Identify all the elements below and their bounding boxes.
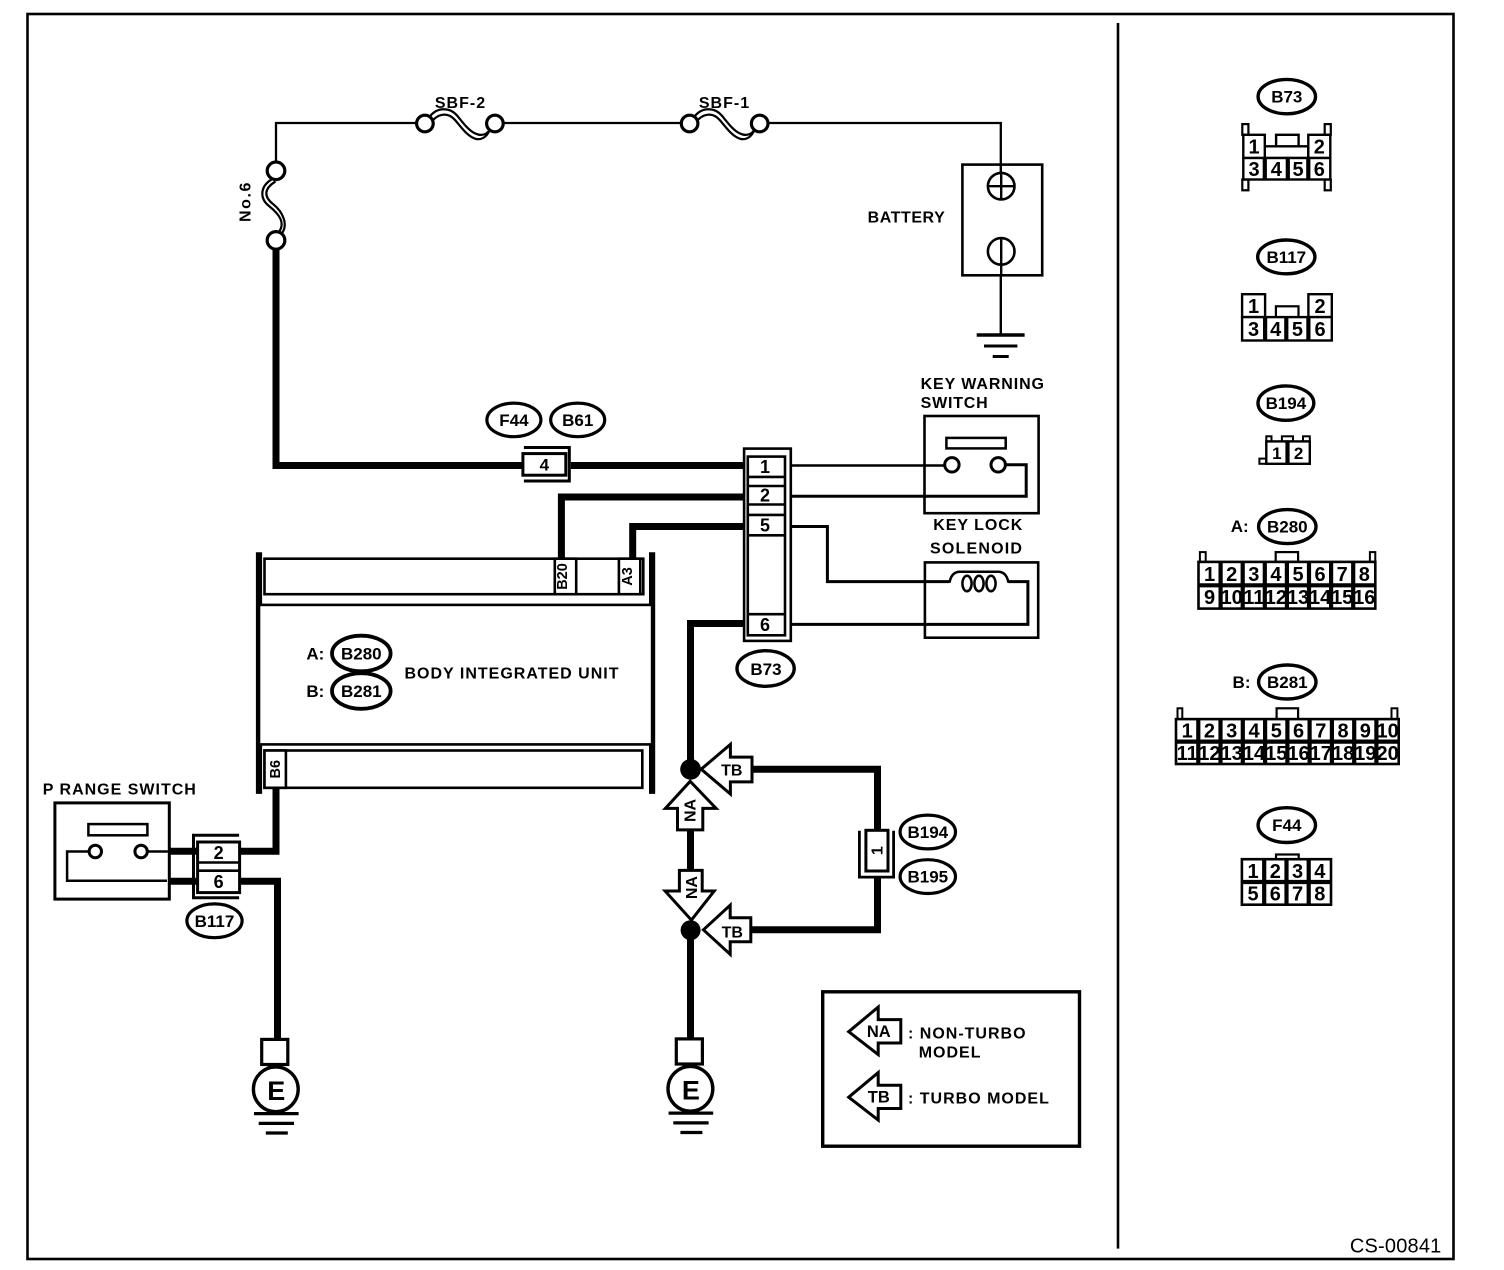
svg-text:A3: A3 [620,567,636,586]
svg-text:6: 6 [1270,884,1281,906]
svg-text:NA: NA [867,1023,891,1041]
svg-text:4: 4 [1270,319,1282,341]
wire B73 pin 5 to key lock solenoid [791,527,950,582]
wire P range switch to B117 pin 2 (thick) [169,848,198,855]
connector label F44 [487,403,541,437]
svg-text:6: 6 [214,872,224,892]
wire B73 pin 6 to junction (thick) [691,624,747,761]
svg-text:No.6: No.6 [238,181,255,222]
svg-text:5: 5 [1271,721,1282,743]
wire between NA arrows (thick) [687,830,694,871]
svg-text:1: 1 [760,457,770,477]
svg-text:4: 4 [1314,861,1326,883]
svg-text:F44: F44 [499,411,529,430]
ground E right [668,1039,713,1133]
svg-text:12: 12 [1198,743,1220,765]
svg-text:5: 5 [760,516,770,536]
svg-text:B195: B195 [907,868,948,887]
svg-text:1: 1 [1248,137,1259,159]
svg-text:BODY INTEGRATED UNIT: BODY INTEGRATED UNIT [405,666,620,683]
svg-text:6: 6 [1314,159,1325,181]
fuse SBF-2 [417,95,504,139]
svg-text:MODEL: MODEL [919,1044,982,1061]
panel connector B281 [1176,665,1399,765]
battery [868,165,1043,276]
svg-text:NA: NA [683,799,700,823]
svg-text:B280: B280 [1267,518,1308,537]
svg-text:E: E [682,1076,700,1106]
svg-text:7: 7 [1315,721,1326,743]
svg-text:3: 3 [1248,564,1259,586]
svg-text:1: 1 [1182,721,1193,743]
wire P range switch to B117 pin 6 (thick) [169,878,198,885]
svg-text:14: 14 [1309,587,1332,609]
svg-text:20: 20 [1376,743,1398,765]
svg-text:: TURBO MODEL: : TURBO MODEL [908,1091,1050,1108]
svg-text:1: 1 [1204,564,1215,586]
svg-text:16: 16 [1353,587,1375,609]
connector B73 block [744,449,791,641]
junction node 2 [681,920,701,940]
svg-text:15: 15 [1265,743,1287,765]
connector label B73 [737,651,794,687]
wire B20 to B73 pin 2 (thick) [561,497,748,560]
connector label B117 [187,904,242,938]
svg-text:B281: B281 [1267,673,1308,692]
svg-text:14: 14 [1243,743,1266,765]
svg-text:5: 5 [1292,564,1303,586]
connector label B280 [332,636,391,672]
svg-text:B117: B117 [195,912,235,931]
svg-text:NA: NA [684,876,701,900]
svg-text:8: 8 [1314,884,1325,906]
connector label B194 [900,815,955,849]
arrow TB (junction 1) [701,744,752,794]
connector B6 cell [265,751,286,788]
svg-text:A:: A: [306,644,324,663]
fuse No.6 [238,162,285,249]
wire battery to ground [1000,275,1002,334]
svg-text:B280: B280 [341,645,382,664]
svg-text:KEY LOCK: KEY LOCK [933,517,1023,534]
svg-text:17: 17 [1310,743,1332,765]
svg-text:TB: TB [721,762,742,779]
svg-text:6: 6 [1293,721,1304,743]
ground battery [977,335,1025,357]
svg-text:13: 13 [1287,587,1309,609]
svg-text:13: 13 [1221,743,1243,765]
svg-text:4: 4 [1270,564,1282,586]
connector label B61 [551,403,605,437]
svg-text:7: 7 [1292,884,1303,906]
P range switch [43,782,197,900]
svg-text:B194: B194 [1266,394,1307,413]
connector B117 block [194,835,240,897]
svg-text:11: 11 [1243,587,1264,609]
svg-text:SBF-2: SBF-2 [435,95,486,112]
svg-text:4: 4 [1271,159,1283,181]
svg-text:9: 9 [1204,587,1215,609]
panel connector B117 [1242,240,1332,341]
legend box [823,992,1080,1146]
svg-text:16: 16 [1287,743,1309,765]
panel connector F44 [1242,808,1331,906]
arrow NA up (junction 1) [665,781,716,830]
svg-text:B117: B117 [1266,248,1306,267]
key warning switch [921,376,1045,513]
connector F44/B61 pin 4 (inline) [523,448,569,482]
fuse SBF-1 [681,95,768,139]
svg-text:1: 1 [870,846,887,855]
arrow NA down (junction 2) [665,870,714,920]
svg-text:B73: B73 [1271,88,1302,107]
svg-text:3: 3 [1226,721,1237,743]
svg-text:2: 2 [1226,564,1237,586]
svg-text:E: E [267,1076,285,1106]
wire between SBF-2 and SBF-1 [503,122,681,124]
svg-text:B194: B194 [907,823,948,842]
svg-text:5: 5 [1247,884,1258,906]
arrow TB (junction 2) [703,905,750,954]
svg-text:2: 2 [760,486,770,506]
svg-text:KEY WARNING: KEY WARNING [921,376,1045,393]
svg-text:8: 8 [1359,564,1370,586]
wire A3 to B73 pin 5 (thick) [633,527,748,560]
svg-text:B61: B61 [562,411,593,430]
svg-text:BATTERY: BATTERY [868,210,946,227]
svg-text:B:: B: [306,682,324,701]
svg-text:2: 2 [1270,861,1281,883]
wire key lock solenoid to B73 pin 6 [791,582,1028,625]
wire battery feed top [276,123,417,161]
svg-text:TB: TB [722,924,743,941]
junction node 1 [680,759,701,780]
connector B20 cell [555,559,576,595]
wire SBF-1 to battery [768,123,1001,165]
svg-text:4: 4 [1248,721,1260,743]
svg-text:1: 1 [1248,296,1259,318]
svg-text:SBF-1: SBF-1 [699,95,750,112]
wire TB junction1 to connector 1 (thick) [752,769,878,830]
svg-text:3: 3 [1248,319,1259,341]
wire B73 pin 2 to key warning switch [791,465,1026,496]
svg-text:6: 6 [760,615,770,635]
svg-text:2: 2 [1294,444,1303,463]
svg-text:12: 12 [1265,587,1287,609]
wire connector 4 to B73 pin 1 (thick) [571,462,748,469]
svg-text:B:: B: [1233,673,1251,692]
svg-text:2: 2 [1314,137,1325,159]
svg-text:B20: B20 [555,563,571,590]
wire B6 to B117 pin 2 (thick) [240,789,276,851]
svg-text:P RANGE SWITCH: P RANGE SWITCH [43,782,197,799]
svg-text:2: 2 [214,843,224,863]
svg-text:A:: A: [1231,517,1249,536]
svg-text:2: 2 [1315,296,1326,318]
wire junction 2 to ground E right (thick) [687,939,694,1040]
key lock solenoid [925,517,1038,638]
svg-text:11: 11 [1177,743,1198,765]
svg-text:6: 6 [1315,319,1326,341]
svg-text:3: 3 [1292,861,1303,883]
wire connector 1 to TB junction2 (thick) [751,878,878,930]
svg-text:B6: B6 [268,760,284,779]
ground E left [253,1039,298,1133]
svg-text:2: 2 [1204,721,1215,743]
connector label B195 [900,860,955,894]
svg-text:: NON-TURBO: : NON-TURBO [908,1025,1027,1042]
svg-text:18: 18 [1332,743,1354,765]
svg-text:1: 1 [1272,444,1281,463]
connector B194/B195 pin 1 (inline) [859,830,893,877]
svg-text:10: 10 [1221,587,1243,609]
svg-text:4: 4 [540,456,550,475]
panel connector B194 [1258,386,1314,464]
wire No.6 to connector 4 (thick) [276,249,524,465]
svg-text:B73: B73 [750,660,781,679]
svg-text:6: 6 [1315,564,1326,586]
svg-text:5: 5 [1292,159,1303,181]
svg-text:TB: TB [868,1089,890,1107]
svg-text:8: 8 [1338,721,1349,743]
connector A3 cell [619,559,640,595]
legend arrow NA [849,1007,901,1055]
svg-text:3: 3 [1248,159,1259,181]
svg-text:7: 7 [1337,564,1348,586]
svg-text:B281: B281 [341,682,382,701]
panel connector B73 [1242,79,1330,190]
legend arrow TB [849,1073,901,1121]
svg-text:SWITCH: SWITCH [921,395,989,412]
connector label B281 [332,673,391,709]
body integrated unit [259,552,652,794]
svg-text:1: 1 [1247,861,1258,883]
coil [950,572,1009,583]
panel connector B280 [1199,510,1376,610]
wire B73 pin 1 to key warning switch [791,464,945,466]
svg-text:9: 9 [1360,721,1371,743]
svg-text:F44: F44 [1272,816,1302,835]
svg-text:5: 5 [1292,319,1303,341]
svg-text:CS-00841: CS-00841 [1350,1236,1442,1258]
svg-text:SOLENOID: SOLENOID [930,541,1023,558]
wire B117 pin 6 to ground E (thick) [240,881,278,1040]
svg-text:10: 10 [1376,721,1398,743]
svg-text:19: 19 [1354,743,1376,765]
svg-text:15: 15 [1331,587,1353,609]
